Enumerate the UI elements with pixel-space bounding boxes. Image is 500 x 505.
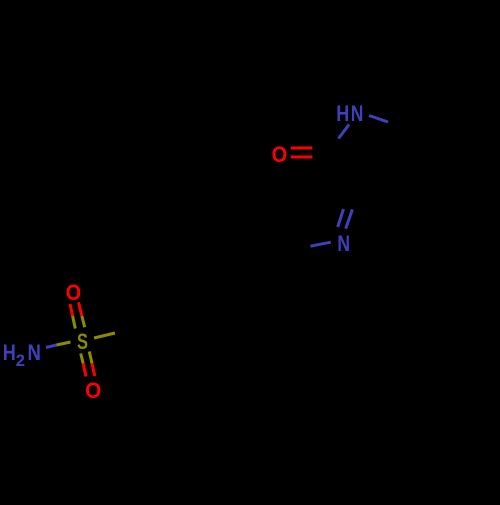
- svg-text:N: N: [337, 231, 350, 256]
- svg-text:S: S: [77, 329, 88, 354]
- wire: N-S bond olive half: [57, 342, 71, 345]
- wire: S=O top double bond, line1 red half: [70, 304, 73, 316]
- wire: N-C(aryl) single bond blue half: [311, 242, 331, 246]
- wire: S-C bond olive half: [94, 333, 115, 338]
- wire: N-S bond blue half: [46, 345, 57, 348]
- wire: C3=N double bond blue halves: [338, 209, 344, 227]
- svg-text:O: O: [66, 280, 81, 305]
- svg-text:H: H: [3, 340, 16, 365]
- svg-text:O: O: [272, 142, 288, 167]
- svg-text:N: N: [351, 101, 364, 126]
- wire: S=O bottom double bond, line1 olive half: [81, 354, 84, 364]
- wire: S=O bottom double bond, line2 red half: [92, 364, 95, 377]
- wire: S=O top double bond, line2 red half: [79, 302, 82, 316]
- wire: C2=O double bond red halves: [291, 147, 313, 150]
- wire: bond N1-C7a (blue half): [369, 116, 388, 123]
- wire: S=O bottom double bond, line2 olive half: [89, 352, 92, 364]
- wire: bond N1-C2 (blue half): [339, 125, 350, 139]
- wire: S=O bottom double bond, line1 red half: [83, 364, 86, 377]
- svg-text:H: H: [336, 101, 349, 126]
- wire: S=O top double bond, line1 olive half: [73, 316, 76, 329]
- svg-text:N: N: [28, 340, 41, 365]
- svg-text:O: O: [85, 378, 101, 403]
- wire: S=O top double bond, line2 olive half: [82, 316, 85, 327]
- svg-text:2: 2: [16, 352, 25, 370]
